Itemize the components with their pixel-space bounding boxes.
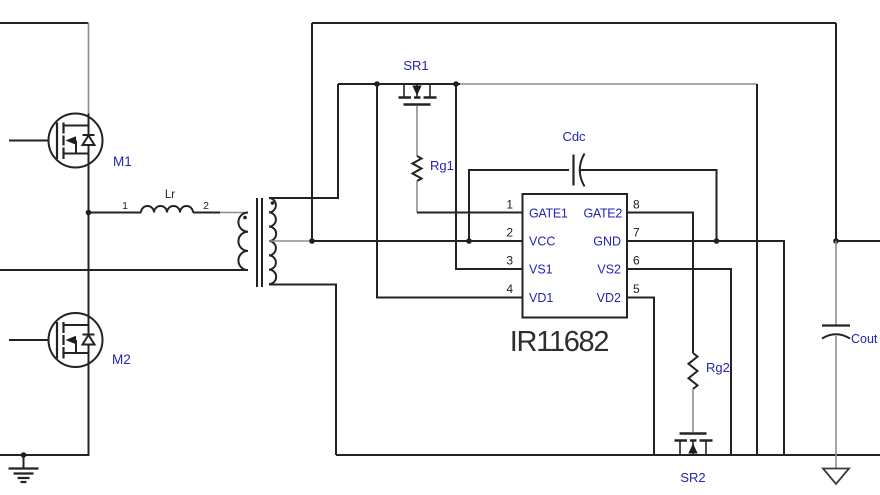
- svg-text:1: 1: [506, 198, 513, 212]
- node VCC-Cdc junction: [466, 238, 472, 244]
- wire primary bottom to left edge: [0, 269, 248, 271]
- wire Cdc right to GND net: [580, 170, 717, 241]
- wire GATE2 pin 8 to Rg2: [627, 213, 693, 354]
- node ground tap: [21, 452, 27, 458]
- svg-text:4: 4: [506, 282, 513, 296]
- svg-text:Cout: Cout: [851, 332, 878, 346]
- capacitor Cout: [822, 326, 850, 339]
- node top-rail output junction: [833, 238, 839, 244]
- wire output stub to right edge: [836, 240, 880, 242]
- node SR1 drain junction: [374, 81, 380, 87]
- wire center tap to VCC pin 2: [312, 240, 523, 242]
- svg-text:M1: M1: [113, 154, 132, 169]
- wire SR1 source to VS1 pin 3: [456, 84, 523, 269]
- svg-text:VCC: VCC: [529, 235, 555, 249]
- svg-text:VD2: VD2: [597, 291, 621, 305]
- svg-text:3: 3: [506, 254, 513, 268]
- wire SR1 drain to VD1 pin 4: [377, 84, 523, 298]
- wire Cout branch upper: [835, 241, 837, 326]
- IC U1 IR11682: [506, 194, 640, 318]
- wire SR1 rail left: [338, 83, 460, 85]
- transformer core: [257, 198, 262, 287]
- node junction at Lr tap: [86, 210, 92, 216]
- svg-text:GATE1: GATE1: [529, 207, 568, 221]
- inductor Lr: [89, 189, 221, 213]
- wire secondary top to riser: [269, 84, 338, 198]
- svg-text:VS1: VS1: [529, 263, 553, 277]
- wire GND pin 7 to right drop: [627, 241, 784, 455]
- wire SR1 gate lead: [416, 106, 418, 157]
- wire top rail: [312, 23, 836, 241]
- svg-text:5: 5: [633, 282, 640, 296]
- svg-text:GATE2: GATE2: [583, 207, 622, 221]
- resistor Rg1: [413, 156, 422, 181]
- wire M2 source down and left: [0, 367, 89, 455]
- svg-text:8: 8: [633, 198, 640, 212]
- svg-text:2: 2: [203, 200, 209, 212]
- mosfet M2: [9, 313, 103, 367]
- svg-text:Rg2: Rg2: [706, 360, 730, 375]
- wire VD2 pin 5: [627, 298, 654, 456]
- svg-text:Cdc: Cdc: [562, 129, 586, 144]
- mosfet M1: [9, 114, 103, 168]
- wire secondary center tap: [269, 240, 312, 242]
- svg-text:6: 6: [633, 254, 640, 268]
- wire Rg1 bottom lead: [416, 181, 418, 213]
- wire Rg1 to GATE1 pin 1: [417, 212, 523, 214]
- svg-text:M2: M2: [112, 352, 131, 367]
- svg-text:IR11682: IR11682: [510, 326, 609, 358]
- svg-text:Rg1: Rg1: [430, 158, 454, 173]
- svg-text:VD1: VD1: [529, 291, 553, 305]
- svg-text:2: 2: [506, 226, 513, 240]
- wire top-left horizontal to M1 drain: [0, 22, 89, 24]
- ground (triangle): [823, 469, 849, 485]
- primary winding: [238, 213, 248, 271]
- wire Rg2 to SR2 gate: [692, 389, 694, 432]
- wire secondary bottom to ground rail: [269, 285, 336, 456]
- wire Cdc left branch: [469, 170, 569, 241]
- secondary winding: [269, 198, 276, 284]
- node SR1 source junction: [453, 81, 459, 87]
- transistor SR2: [675, 434, 713, 456]
- wire SR1 rail down to ground rail: [756, 84, 758, 455]
- svg-text:Lr: Lr: [165, 189, 175, 201]
- wire Lr to transformer primary: [220, 212, 248, 214]
- capacitor Cdc: [574, 154, 585, 187]
- wire M1 drain vertical: [88, 23, 90, 114]
- node Cdc-GND junction: [714, 238, 720, 244]
- ground (earth): [9, 455, 39, 482]
- node center tap junction: [309, 238, 315, 244]
- svg-text:7: 7: [633, 226, 640, 240]
- wire M1 source to M2 drain: [88, 168, 90, 314]
- svg-text:SR1: SR1: [403, 58, 428, 73]
- resistor Rg2: [689, 353, 698, 389]
- transformer T1: [238, 198, 276, 287]
- svg-text:VS2: VS2: [597, 263, 621, 277]
- wire VS2 pin 6: [627, 269, 731, 455]
- wire SR1 rail right: [460, 83, 757, 85]
- svg-text:1: 1: [122, 200, 128, 212]
- svg-text:GND: GND: [593, 235, 621, 249]
- transistor SR1: [399, 84, 437, 105]
- wire bottom ground rail: [336, 454, 880, 456]
- wire Cout to ground: [835, 336, 837, 468]
- svg-text:SR2: SR2: [680, 470, 705, 485]
